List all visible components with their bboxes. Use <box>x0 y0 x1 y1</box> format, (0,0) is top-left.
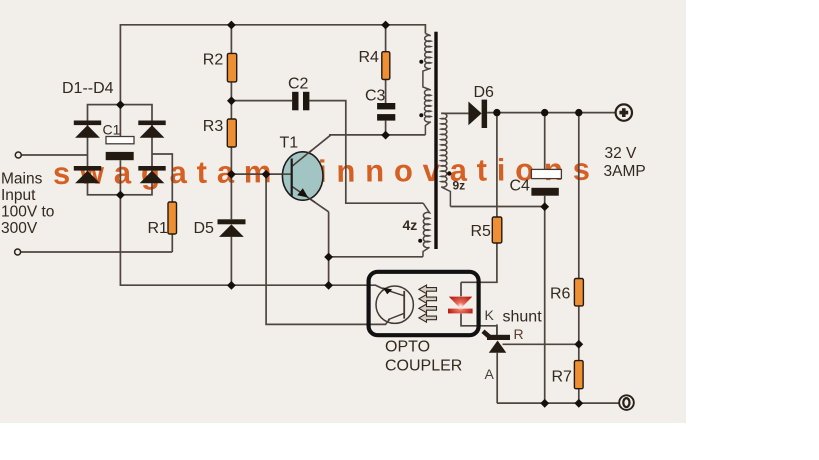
svg-text:D5: D5 <box>194 220 215 237</box>
svg-text:COUPLER: COUPLER <box>385 358 462 375</box>
svg-text:R7: R7 <box>552 368 573 385</box>
svg-text:R3: R3 <box>203 118 224 135</box>
svg-text:shunt: shunt <box>503 309 543 326</box>
svg-text:D1--D4: D1--D4 <box>62 80 114 97</box>
svg-text:A: A <box>485 366 495 382</box>
svg-text:C3: C3 <box>365 88 386 105</box>
svg-text:C2: C2 <box>288 76 309 93</box>
svg-text:C4: C4 <box>510 178 531 195</box>
svg-text:T1: T1 <box>280 134 299 151</box>
svg-text:100V to: 100V to <box>1 204 54 221</box>
svg-text:OPTO: OPTO <box>385 339 430 356</box>
svg-text:3AMP: 3AMP <box>604 163 646 180</box>
svg-text:D6: D6 <box>474 84 495 101</box>
svg-text:9z: 9z <box>453 178 466 192</box>
svg-text:32 V: 32 V <box>605 145 638 162</box>
svg-text:K: K <box>485 307 495 323</box>
svg-text:R4: R4 <box>359 49 380 66</box>
svg-text:R5: R5 <box>471 223 492 240</box>
svg-text:Mains: Mains <box>1 171 43 188</box>
svg-text:R: R <box>514 326 524 342</box>
svg-text:R6: R6 <box>550 286 571 303</box>
svg-text:4z: 4z <box>403 217 418 233</box>
svg-text:Input: Input <box>1 187 36 204</box>
svg-text:300V: 300V <box>1 220 38 237</box>
svg-text:C1: C1 <box>103 121 121 137</box>
svg-text:R1: R1 <box>148 220 169 237</box>
svg-text:R2: R2 <box>203 51 224 68</box>
